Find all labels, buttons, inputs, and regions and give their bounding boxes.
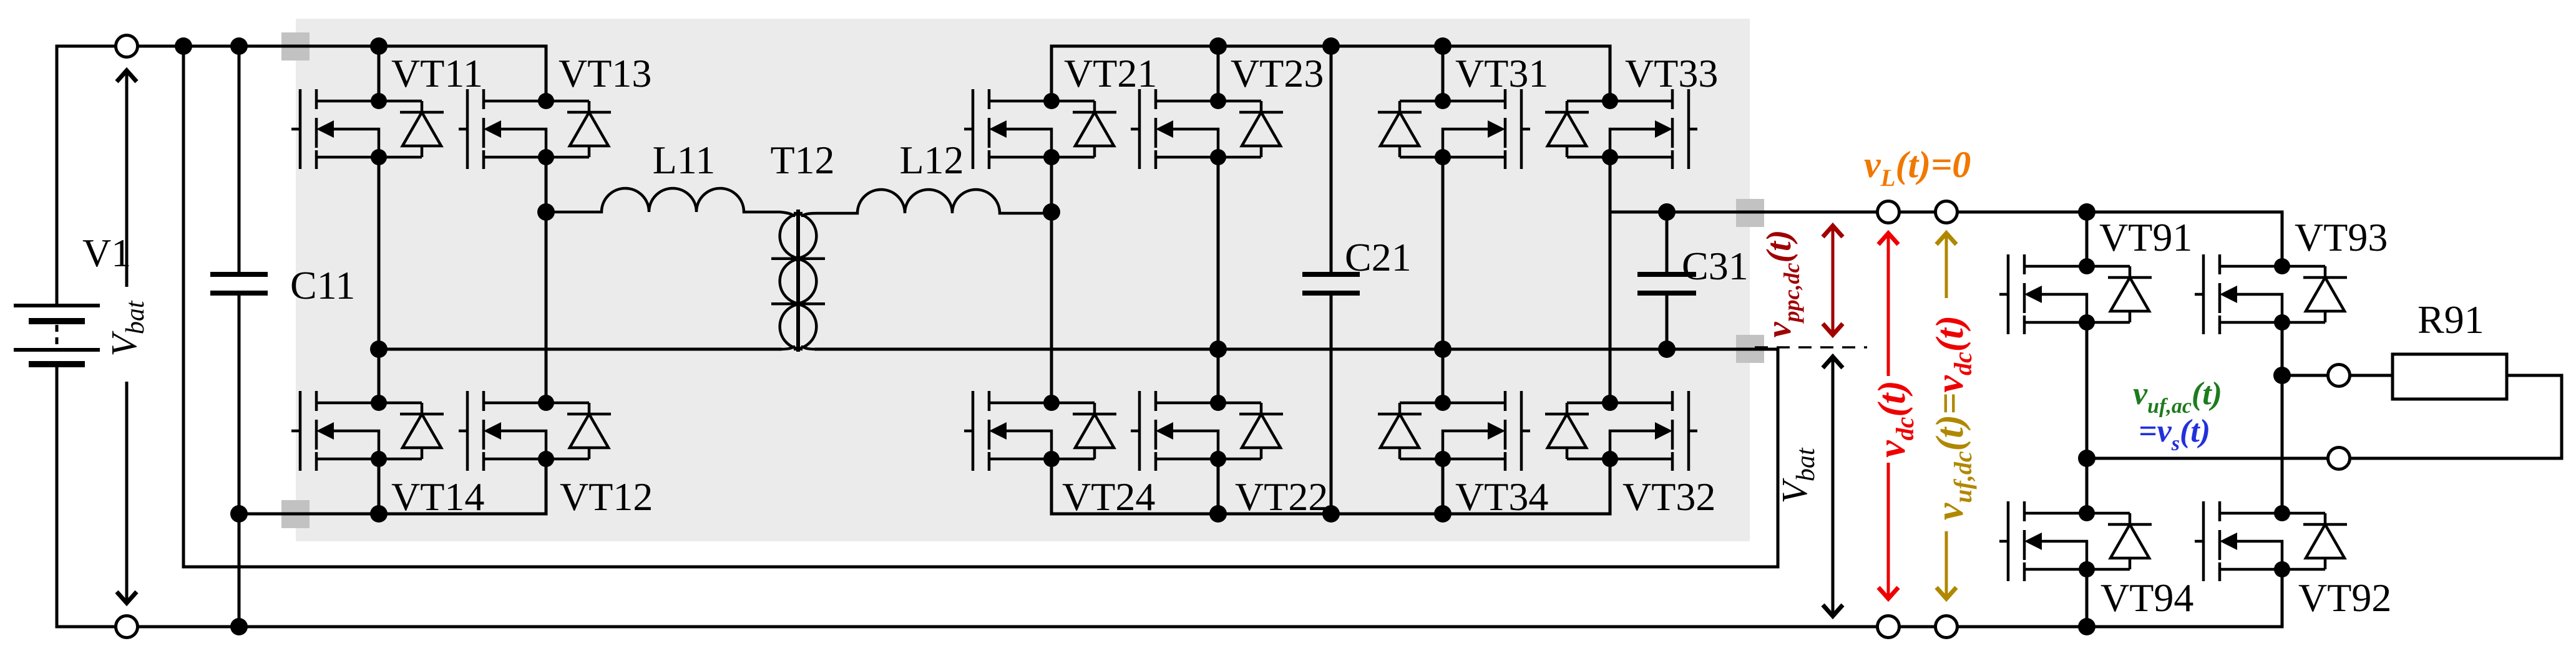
svg-text:VT24: VT24 (1062, 475, 1155, 519)
svg-text:VT13: VT13 (559, 51, 651, 95)
svg-text:=vs(t): =vs(t) (2139, 413, 2210, 455)
svg-text:VT33: VT33 (1625, 51, 1718, 95)
svg-text:L12: L12 (899, 138, 964, 182)
svg-text:VT92: VT92 (2298, 576, 2391, 620)
svg-text:T12: T12 (770, 138, 834, 182)
svg-text:VT22: VT22 (1235, 475, 1328, 519)
svg-text:vppc,dc(t): vppc,dc(t) (1760, 230, 1804, 338)
svg-text:VT32: VT32 (1622, 475, 1715, 519)
svg-text:VT91: VT91 (2099, 215, 2192, 259)
svg-text:vdc(t): vdc(t) (1871, 380, 1919, 458)
svg-text:VT12: VT12 (560, 475, 653, 519)
svg-text:VT21: VT21 (1064, 51, 1157, 95)
svg-text:VT14: VT14 (391, 475, 484, 519)
svg-text:R91: R91 (2417, 297, 2484, 342)
svg-text:VT94: VT94 (2100, 576, 2193, 620)
svg-text:C31: C31 (1682, 244, 1749, 288)
svg-text:VT31: VT31 (1455, 51, 1548, 95)
svg-text:C11: C11 (290, 263, 355, 307)
svg-text:VT11: VT11 (391, 51, 483, 95)
svg-text:V1: V1 (82, 231, 131, 275)
svg-text:VT23: VT23 (1231, 51, 1324, 95)
svg-text:Vbat: Vbat (104, 300, 150, 356)
svg-text:VT93: VT93 (2295, 215, 2388, 259)
svg-text:vuf,ac(t): vuf,ac(t) (2133, 376, 2222, 418)
svg-text:L11: L11 (653, 138, 716, 182)
svg-text:Vbat: Vbat (1774, 447, 1820, 503)
svg-text:vL(t)=0: vL(t)=0 (1864, 144, 1971, 191)
svg-text:VT34: VT34 (1455, 475, 1548, 519)
svg-text:C21: C21 (1345, 235, 1412, 279)
svg-text:vuf,dc(t)=vdc(t): vuf,dc(t)=vdc(t) (1929, 316, 1977, 521)
